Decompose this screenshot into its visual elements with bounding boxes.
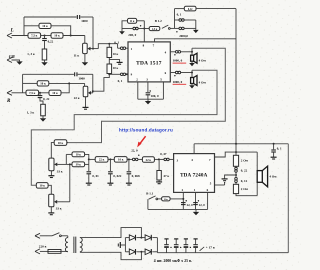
wire pin2 down <box>137 82 139 99</box>
input connector GR <box>7 58 12 63</box>
wire stub 0,22 R <box>39 93 41 96</box>
capacitor 22,0 sub <box>132 158 138 161</box>
label 33k sub1 <box>57 170 63 174</box>
wire cap to R3 R <box>40 98 43 105</box>
wire ripple net <box>122 28 133 30</box>
wire L input <box>12 35 29 37</box>
svg-text:10 к: 10 к <box>54 34 60 38</box>
label 0,1 pin1 <box>114 40 119 44</box>
svg-text:В 1.2: В 1.2 <box>155 19 162 23</box>
plus 200,0 <box>140 25 141 26</box>
speaker BA3 4 Ohm <box>257 166 267 187</box>
resistor 10k subB <box>36 183 48 189</box>
svg-text:22 к: 22 к <box>146 158 152 162</box>
node bridge bot mid <box>140 251 142 253</box>
label 220v <box>39 244 47 248</box>
svg-text:22 к: 22 к <box>74 96 80 100</box>
wire C left <box>66 153 72 155</box>
svg-text:0, 068: 0, 068 <box>132 174 140 178</box>
wire wiper pot3 <box>57 163 72 165</box>
capacitor 0,22 L <box>42 39 47 41</box>
diode VD4 <box>145 249 151 255</box>
wire dc bus <box>157 252 288 254</box>
capacitor 0,068 <box>127 159 132 183</box>
node mute pin2 <box>182 198 184 200</box>
label +17v <box>200 246 215 251</box>
label R input <box>7 99 11 104</box>
resistor R3 1,3k L <box>42 49 47 60</box>
capacitor 1000 L <box>77 15 79 19</box>
node wiper R <box>92 90 94 92</box>
capacitor C filter 4 <box>193 239 198 253</box>
red underline out2 <box>173 83 187 85</box>
wire sub mix vert A <box>65 154 67 164</box>
svg-text:4 Ом: 4 Ом <box>269 175 277 179</box>
svg-text:10 к: 10 к <box>113 66 119 70</box>
pin label 6 sub <box>207 188 209 192</box>
wire pin4 out <box>170 51 175 53</box>
capacitor C filter 2 <box>174 239 181 253</box>
wire 1000R down <box>92 74 94 93</box>
ground IC1 <box>145 101 151 104</box>
svg-text:10 к: 10 к <box>113 52 119 56</box>
capacitor 0,1 pin9 <box>120 73 125 76</box>
plus 2000,0 <box>176 31 177 32</box>
capacitor 200,0 <box>133 27 138 30</box>
pin label 2 sub <box>182 188 184 192</box>
svg-text:10 к: 10 к <box>40 82 46 86</box>
svg-text:0,12: 0,12 <box>188 8 193 11</box>
svg-text:7,5 к: 7,5 к <box>31 34 38 38</box>
label 1,3k L <box>27 52 35 56</box>
pin label 1 sub <box>194 188 196 192</box>
wire secondary bottom <box>80 252 141 260</box>
wire pot2 bottom <box>85 97 87 107</box>
svg-text:1000: 1000 <box>78 76 85 80</box>
label R5 10k <box>113 66 119 70</box>
svg-text:33 к: 33 к <box>57 170 63 174</box>
wire sub mix vert B <box>69 164 71 201</box>
wire subA right <box>67 142 68 144</box>
svg-text:47 к: 47 к <box>163 174 169 178</box>
node R divider <box>39 92 41 94</box>
svg-text:22к: 22к <box>164 198 168 201</box>
wire feedback L left <box>24 25 39 27</box>
wire top 1000 L right <box>80 16 93 18</box>
resistor 10k filter C <box>72 152 85 157</box>
wire R4 bottom node <box>108 58 110 65</box>
wire bias gnd stub <box>109 60 119 63</box>
capacitor 100,0 <box>146 93 151 95</box>
op-amp U2 TDA7240A <box>174 154 215 193</box>
node pin8 net <box>143 28 145 30</box>
capacitor 0,1 rail <box>271 144 276 157</box>
svg-text:1, 3 к: 1, 3 к <box>27 52 35 56</box>
label 0,01 <box>92 174 99 178</box>
red arrow <box>137 136 145 147</box>
wire mute to pin2 <box>170 198 183 200</box>
fuse <box>48 250 61 254</box>
wire filter in <box>89 158 95 160</box>
resistor 1,5k <box>149 27 160 31</box>
wire step up L <box>98 44 117 49</box>
wire pin6 down sub <box>207 192 209 209</box>
node R4 top <box>108 43 110 45</box>
wire speaker1 loop <box>67 48 226 142</box>
resistor R5 10k bias <box>107 64 112 74</box>
ground pot1 <box>82 62 88 65</box>
wire mains top <box>40 235 52 237</box>
wire pot4 bottom <box>50 207 52 213</box>
svg-text:TDA 7240A: TDA 7240A <box>180 172 208 178</box>
wire 11k left <box>122 21 128 32</box>
transformer T1 core <box>74 237 76 253</box>
svg-text:4 шт. 2000 мкФ х 25 в.: 4 шт. 2000 мкФ х 25 в. <box>154 259 192 263</box>
wire net to 1,5k <box>138 28 149 30</box>
node zobel top <box>235 151 237 153</box>
resistor R2 10k L <box>51 33 63 38</box>
ground pot4 <box>48 213 54 215</box>
wire cap gnd vert <box>195 20 197 30</box>
wire pin3 low <box>147 95 149 99</box>
resistor 22k filter E <box>95 157 108 163</box>
wire pot1 bottom <box>84 54 86 63</box>
wire spk3 right edge <box>256 152 258 196</box>
label caps bank <box>154 259 192 263</box>
wire rail top right <box>196 8 236 10</box>
wire R3R-gnd <box>42 116 44 118</box>
wire pin2 down sub <box>182 192 184 209</box>
label 22,0 pin1 <box>199 203 206 207</box>
svg-text:11 к: 11 к <box>130 20 135 23</box>
wire pin3 down <box>147 82 149 92</box>
svg-text:220 в: 220 в <box>39 244 47 248</box>
label 0,068 <box>132 174 140 178</box>
plus pin1 <box>198 200 199 201</box>
wire supply rail sub <box>194 143 288 145</box>
svg-text:100, 0: 100, 0 <box>151 94 159 98</box>
wire 39k right <box>85 163 89 165</box>
svg-text:10 к: 10 к <box>58 141 64 145</box>
svg-text:1000: 1000 <box>81 19 88 23</box>
potentiometer 22k R <box>83 86 91 97</box>
pin label 9 <box>131 73 133 77</box>
wire mains bottom2 <box>61 250 68 252</box>
svg-text:0, 1: 0, 1 <box>277 147 282 151</box>
label GR <box>9 54 15 59</box>
label 2000,0 <box>179 34 188 38</box>
resistor 2 Ohm b <box>233 182 238 193</box>
potentiometer 33k sub2 <box>49 194 58 207</box>
potentiometer 11k L <box>83 43 91 53</box>
diode VD2 <box>145 235 151 241</box>
switch mains <box>52 233 61 237</box>
wire zobel mid tap <box>225 175 236 179</box>
diode VD1 <box>129 235 135 241</box>
label B1.1 <box>146 192 153 196</box>
wire wiper R <box>91 92 93 94</box>
pin label 3 sub <box>177 159 179 163</box>
label 0,47 <box>160 152 167 156</box>
node pin9 <box>126 73 128 75</box>
capacitor 0,1 supply <box>175 19 196 22</box>
ground 0,022 <box>107 183 113 185</box>
resistor R4 10k bias <box>107 47 112 57</box>
wire stub 0,22 L <box>44 36 46 39</box>
transformer T1 primary <box>65 238 67 252</box>
svg-text:10 к: 10 к <box>118 158 124 162</box>
svg-text:11 к: 11 к <box>74 54 80 58</box>
wire zobel mid <box>235 172 237 177</box>
ground 0,1 rail <box>271 157 277 159</box>
pin label 7 <box>153 44 155 48</box>
wire vert left R <box>22 74 24 93</box>
capacitor 1000 R <box>75 72 77 76</box>
label 0,22 L <box>48 40 54 44</box>
wire R2R right <box>61 83 69 92</box>
pin label 5 <box>160 78 162 82</box>
wire elbow R5 to wiper <box>93 74 110 92</box>
wire gnd bus IC1 <box>138 98 164 100</box>
pin label 2 <box>136 78 138 82</box>
wire speaker2 loop <box>31 70 217 185</box>
label 4 Ohm BA3 <box>269 175 277 179</box>
ground IC2 <box>193 212 199 215</box>
wire mains bottom <box>40 250 48 252</box>
resistor mute <box>162 197 171 201</box>
plus out1 <box>174 54 175 55</box>
wire R input <box>12 92 27 94</box>
svg-text:0, 12: 0, 12 <box>241 179 248 183</box>
potentiometer 33k sub1 <box>49 158 58 171</box>
node rail x236 <box>235 143 237 145</box>
wire bridge row1 <box>125 237 157 239</box>
pin label 4 sub <box>191 158 193 162</box>
wire pin4 up sub <box>193 144 195 154</box>
label 22,0 sub <box>131 148 138 152</box>
input connector L <box>7 33 12 38</box>
node filter in <box>88 158 90 160</box>
wire to pin9 <box>126 73 128 75</box>
resistor 10k filter F <box>114 157 127 163</box>
wire pin1 down sub <box>195 192 197 209</box>
plus 22,0 sub <box>138 155 139 156</box>
wire G right <box>154 158 163 160</box>
wire rail top left <box>175 8 185 10</box>
wire switch B1.1 left <box>147 199 149 209</box>
wire mains top2 <box>61 236 68 238</box>
svg-text:В 1.1: В 1.1 <box>146 192 153 196</box>
speaker BA1 4 Ohm <box>191 53 197 63</box>
label 1,3k R <box>27 110 35 114</box>
wire subB right <box>48 185 51 194</box>
svg-text:10 к: 10 к <box>39 184 45 188</box>
transformer T1 secondary <box>80 238 82 252</box>
svg-text:0, 1: 0, 1 <box>114 40 119 44</box>
wire supply right vert <box>235 9 237 153</box>
pin label 6 <box>165 71 167 75</box>
speaker BA2 4 Ohm <box>191 76 197 86</box>
wire pin8 up <box>143 21 145 42</box>
wire cap 0,1 L pin1 <box>118 44 121 49</box>
label R4 10k <box>113 52 119 56</box>
node mix1 <box>69 163 71 165</box>
wire top 1000 L left <box>24 16 77 18</box>
node L feedback join <box>70 35 72 37</box>
node bridge top mid <box>140 237 142 239</box>
wire speaker2 stub <box>191 70 193 77</box>
label 33k sub2 <box>56 207 62 211</box>
wire pin7 sub <box>215 152 258 157</box>
wire R1-R2 R <box>39 92 49 94</box>
node rail x273 <box>273 143 275 145</box>
plus out2 <box>174 75 175 76</box>
svg-text:2 Ом: 2 Ом <box>241 158 249 162</box>
svg-text:1000, 0: 1000, 0 <box>173 80 183 84</box>
wire cap to R3 L <box>44 41 46 49</box>
svg-text:33 к: 33 к <box>56 207 62 211</box>
resistor 10k feedback R <box>37 81 49 86</box>
ground R3 R <box>40 118 46 121</box>
wire vert left L <box>23 17 25 36</box>
wire R3-gnd L <box>44 60 46 62</box>
svg-text:TDA 1517: TDA 1517 <box>136 61 162 67</box>
wire blade to box <box>158 198 162 200</box>
label 0,1 rail <box>277 147 282 151</box>
wire to pin3 sub <box>169 158 173 160</box>
url datagor <box>119 127 173 132</box>
capacitor 1000,0 out2 <box>175 71 180 74</box>
ground 0,068 <box>126 183 132 185</box>
label 0,12 zobel <box>241 179 248 183</box>
label 1000 R <box>78 76 85 80</box>
capacitor C filter 1 <box>164 239 171 253</box>
resistor 0,12 supply <box>184 6 196 11</box>
svg-text:200, 0: 200, 0 <box>128 33 136 37</box>
resistor 2 Ohm a <box>233 152 238 166</box>
svg-text:0, 22: 0, 22 <box>43 97 50 101</box>
node R5 bottom <box>108 73 110 75</box>
input connector R <box>7 90 12 95</box>
op-amp U1 TDA1517 <box>128 42 170 82</box>
ground 47k <box>156 182 162 184</box>
wire 11k right <box>137 20 145 22</box>
resistor 11k ripple <box>128 18 137 23</box>
node Fout <box>128 158 130 160</box>
wire R4 stub <box>108 44 110 48</box>
pin label 4 <box>165 51 167 55</box>
pin label 1 <box>131 47 133 51</box>
wire secondary top <box>80 228 141 238</box>
wire gnd stub IC2 <box>195 209 197 212</box>
svg-text:1,5 к: 1,5 к <box>152 28 158 31</box>
label 22k <box>74 96 80 100</box>
ground R3 L <box>41 62 47 65</box>
wire to pin1 <box>126 47 128 49</box>
wire out1 <box>181 51 192 53</box>
svg-text:2 Ом: 2 Ом <box>241 187 249 191</box>
wire switch right <box>170 27 174 29</box>
wire pot3 bottom <box>50 171 52 176</box>
capacitor 22,0 pin2 <box>181 203 186 205</box>
wire speaker2 gnd stub <box>191 84 193 86</box>
label 2 Ohm b <box>241 187 249 191</box>
label L input <box>10 28 14 33</box>
svg-text:0, 022: 0, 022 <box>113 174 121 178</box>
label 100,0 <box>151 94 159 98</box>
svg-text:10 к: 10 к <box>52 91 58 95</box>
label 11k <box>74 54 80 58</box>
ground zobel <box>222 179 228 183</box>
svg-text:0, 1: 0, 1 <box>177 13 182 17</box>
label 2 Ohm a <box>241 158 249 162</box>
ground pot3 <box>48 176 54 178</box>
capacitor C filter 3 <box>184 239 191 253</box>
wire into pot2 <box>84 83 86 86</box>
wire out2 <box>181 72 192 74</box>
svg-text:1000, 0: 1000, 0 <box>173 59 183 63</box>
wire 39k left <box>70 163 72 165</box>
wire R1-R2 <box>41 35 51 37</box>
wire zobel bottom <box>236 194 257 196</box>
label 0,1 pin9 <box>118 79 123 83</box>
wire gnd stub IC1 <box>147 99 149 101</box>
label 22,0 pin2 <box>187 203 194 207</box>
wire pin7 up <box>155 39 237 42</box>
wire pin5 sub <box>215 183 225 185</box>
ground speaker1 <box>189 63 195 66</box>
capacitor 0,01 <box>87 164 92 183</box>
node L divider <box>44 35 46 37</box>
svg-text:0, 1: 0, 1 <box>118 79 123 83</box>
resistor R2 10k R <box>49 90 61 95</box>
ground pot2 <box>83 107 89 109</box>
label 1000,0 out1 <box>173 59 183 63</box>
wire R5 to cap <box>109 73 120 75</box>
pin label 8 <box>143 44 145 48</box>
wire into pot1 <box>84 36 86 44</box>
svg-text:0,22: 0,22 <box>48 40 54 44</box>
wire F right <box>127 158 132 160</box>
wire wiper L <box>90 48 98 50</box>
svg-text:1, 3 к: 1, 3 к <box>27 110 35 114</box>
node EF <box>109 158 111 160</box>
ground supply caps <box>193 30 199 33</box>
input connector 220 top <box>35 233 40 238</box>
svg-text:0, 01: 0, 01 <box>92 174 99 178</box>
node R feedback join <box>68 82 70 84</box>
resistor 22k filter G <box>142 157 154 163</box>
wire 1000 R right <box>78 73 93 75</box>
switch B1.2 blade <box>162 25 170 29</box>
capacitor 0,022 <box>108 159 113 183</box>
wire bridge gnd tap <box>120 244 125 246</box>
resistor 39k filter <box>72 162 85 167</box>
wire 1000 R left <box>23 73 74 75</box>
label 0,022 <box>113 174 121 178</box>
node wiper L <box>92 48 94 50</box>
capacitor 0,22 R <box>38 96 43 98</box>
wire speaker1 gnd stub <box>191 61 193 63</box>
label 1000,0 out2 <box>173 80 183 84</box>
node bias sub <box>158 158 160 160</box>
capacitor 0,1 pin1 <box>120 47 125 50</box>
svg-text:7,5 к: 7,5 к <box>29 91 36 95</box>
wire wiper pot4 <box>57 201 70 203</box>
capacitor 0,47 <box>164 158 169 161</box>
svg-text:10 к: 10 к <box>76 154 81 157</box>
svg-text:4 Ом: 4 Ом <box>199 81 207 85</box>
